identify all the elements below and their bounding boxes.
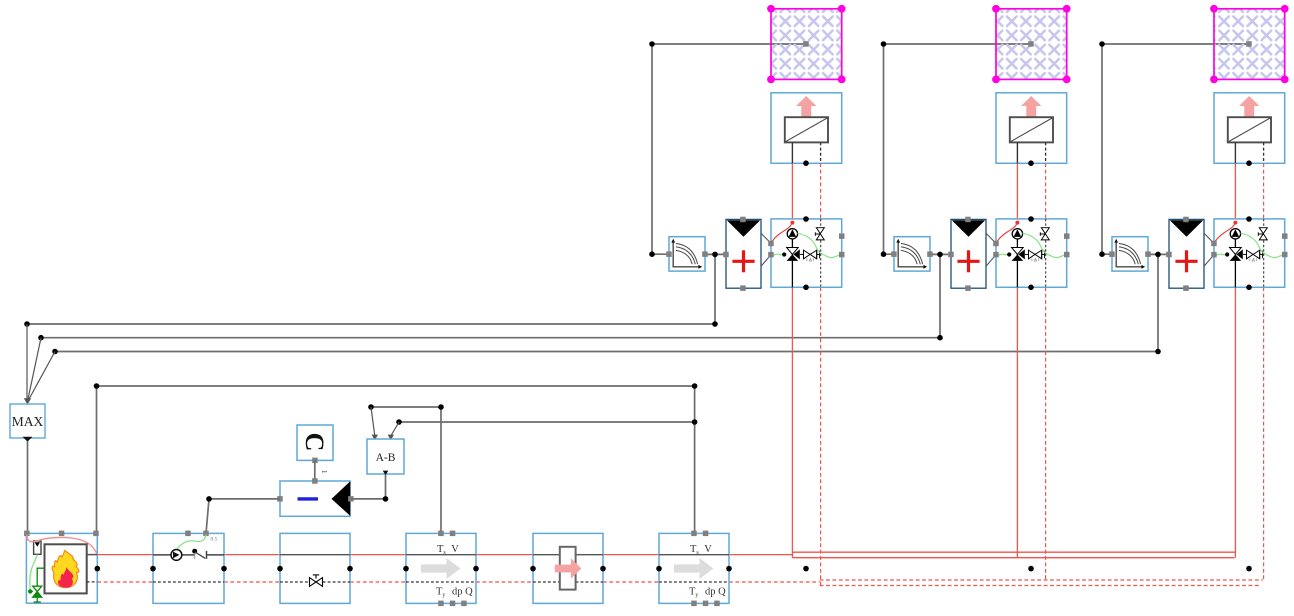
node on radiator bottom [1246, 160, 1252, 166]
unit ports [993, 241, 999, 247]
three-way valve [1230, 248, 1242, 255]
heating curve block [666, 237, 708, 271]
svg-text:MAX: MAX [12, 414, 44, 429]
green wave from left port [996, 254, 1009, 255]
node top border [803, 216, 809, 222]
link adder to valve unit (lower) [1204, 255, 1214, 267]
wire to flow meter 1 [371, 406, 441, 408]
wire MAX to boiler [27, 441, 29, 533]
combustion chamber [45, 544, 87, 593]
tiny valve annotation [1250, 258, 1257, 261]
radiator supply stub [1016, 142, 1018, 163]
supply pipe riser (red) [1234, 163, 1236, 219]
svg-text:0.5: 0.5 [211, 537, 218, 543]
junction on MAX bus [937, 335, 943, 341]
green control wire to pump [177, 534, 206, 548]
green curve pump to right port [1241, 233, 1285, 257]
return pipe (red dashed) boiler to module 1 [97, 581, 153, 583]
supply pipe (red) boiler to riser 1 [97, 554, 153, 556]
diagonals into A-B [371, 407, 375, 436]
junction on MAX bus [1155, 349, 1161, 355]
return pipe down to bus (red dashed) [1263, 287, 1265, 580]
tiny valve annotation [1032, 258, 1039, 261]
pump block [150, 531, 227, 604]
node on radiator bottom [803, 160, 809, 166]
junction before adder [937, 252, 943, 258]
wire: zone temperature signal (vertical drop) [1102, 44, 1112, 254]
link adder to valve unit (upper) [1204, 233, 1214, 243]
green wave from left port [771, 254, 784, 255]
node on bottom pipe row [1028, 566, 1034, 572]
pipe through valve [791, 239, 793, 287]
dashed return inside unit [1045, 219, 1047, 227]
dashed return inside unit [820, 219, 822, 227]
balancing valve (horizontal) [1243, 250, 1263, 259]
radiator supply stub [1234, 142, 1236, 163]
junction before adder [1155, 252, 1161, 258]
node bottom border [1028, 285, 1034, 291]
heat exchanger block [530, 533, 606, 603]
return pipe riser (red dashed) [1045, 163, 1047, 219]
svg-text:Ty dp Q: Ty dp Q [436, 586, 473, 598]
green signal from sensor [30, 554, 37, 590]
green wave from left port [1214, 254, 1227, 255]
three-way valve [787, 248, 799, 255]
bus junctions left [24, 321, 30, 327]
MAX bus from module 2 [41, 337, 940, 339]
wire subtract output to pump [209, 498, 280, 500]
node top border [1246, 216, 1252, 222]
wire: into zone center [884, 43, 1030, 45]
pipe segments [153, 554, 171, 556]
junction at top of drop [881, 41, 887, 47]
red control curve [996, 223, 1017, 244]
wire A-B to subtract input [351, 498, 386, 500]
dashed return inside unit [1263, 219, 1265, 227]
vent valve (vertical) [815, 228, 824, 240]
flame inner [58, 567, 73, 587]
MAX block [10, 404, 45, 442]
radiator supply stub [791, 142, 793, 163]
wire: heating-curve output to adder [930, 253, 951, 255]
junction at bottom of drop [881, 251, 887, 257]
unit ports [1211, 241, 1217, 247]
supply pipe down to bus (red) [1016, 287, 1018, 557]
link adder to valve unit (upper) [761, 233, 771, 243]
boiler box [24, 531, 100, 604]
junction at bottom of drop [649, 251, 655, 257]
wire: zone temperature signal (vertical drop) [652, 44, 669, 254]
boiler-temperature bus [97, 385, 695, 387]
svg-text:1: 1 [320, 470, 328, 474]
flame outer [52, 550, 79, 587]
building zone box [992, 5, 1071, 83]
radiator (heat emission) box [771, 93, 842, 166]
green curve pump to right port [798, 233, 842, 257]
valve-pump unit box [993, 216, 1069, 290]
node top border [1028, 216, 1034, 222]
radiator (heat emission) box [1214, 93, 1285, 166]
wire: heating-curve output to adder [1148, 253, 1169, 255]
wire: zone temperature signal (vertical drop) [884, 44, 895, 254]
link adder to valve unit (lower) [761, 255, 771, 267]
shut-off valve block [277, 533, 353, 603]
supply pipe down to bus (red) [791, 287, 793, 557]
tiny valve annotation [807, 258, 814, 261]
junction at bottom of drop [1099, 251, 1105, 257]
MAX bus from module 1 [27, 323, 715, 325]
pump symbol [171, 550, 182, 561]
MAX bus from module 3 [55, 351, 1158, 353]
building zone box [1210, 5, 1289, 83]
node boiler right [95, 566, 101, 572]
heat arrow up [1021, 96, 1041, 117]
temperature sensor pocket [34, 541, 41, 554]
circulation pump [787, 229, 797, 239]
svg-text:Ty dp Q: Ty dp Q [689, 586, 726, 598]
junction at top of drop [649, 41, 655, 47]
junction at top of drop [1099, 41, 1105, 47]
svg-text:A-B: A-B [376, 452, 396, 464]
circulation pump [1012, 229, 1022, 239]
vent valve (vertical) [1258, 228, 1267, 240]
red control curve in boiler [27, 535, 97, 555]
node on bottom pipe row [1246, 566, 1252, 572]
wire: into zone center [1102, 43, 1247, 45]
dark green connection L [37, 568, 44, 586]
subtract block with feedback triangle [277, 478, 353, 516]
return bus upper (red dashed) [820, 579, 1263, 581]
circulation pump [1230, 229, 1240, 239]
adder block (black triangle + red plus) [723, 217, 761, 291]
radiator return stub (dashed) [1263, 142, 1265, 163]
arrow into MAX [24, 398, 31, 404]
flow meter 2 [656, 531, 732, 607]
return pipe riser (red dashed) [820, 163, 822, 219]
node on radiator bottom [1028, 160, 1034, 166]
node bottom border [803, 285, 809, 291]
node on green line [1225, 252, 1229, 256]
node bottom border [1246, 285, 1252, 291]
valve-pump unit box [768, 216, 844, 290]
green curve pump to right port [1023, 233, 1067, 257]
A-B block [367, 439, 404, 475]
wire: branch down to MAX bus [1157, 254, 1159, 351]
wire A-B to flow meter 2 [399, 421, 695, 423]
heat arrow up [1239, 96, 1259, 117]
return bus lower (red dashed) [820, 585, 1261, 587]
node on green line [782, 252, 786, 256]
radiator body rectangle with diagonal [1228, 117, 1271, 142]
supply pipe riser (red) [1016, 163, 1018, 219]
switch symbol [192, 549, 197, 554]
supply pipe down to bus (red) [1234, 287, 1236, 557]
pipe through valve [1234, 239, 1236, 287]
wires converging into MAX [26, 324, 28, 400]
link adder to valve unit (upper) [986, 233, 996, 243]
red control curve [771, 223, 792, 244]
wire: branch down to MAX bus [714, 254, 716, 324]
building zone box [767, 5, 846, 83]
return pipe down to bus (red dashed) [1045, 287, 1047, 580]
three-way valve [1012, 248, 1024, 255]
unit ports [768, 241, 774, 247]
flow meter 1 [403, 531, 479, 607]
return pipe down to bus (red dashed) [820, 287, 822, 585]
green valve [30, 586, 42, 602]
svg-text:C: C [300, 433, 329, 452]
supply bus lower (red) [793, 557, 1235, 559]
heating curve block [1109, 237, 1151, 271]
return dashed through box [153, 581, 224, 583]
butterfly valve on return [310, 575, 323, 587]
junction on MAX bus [712, 321, 718, 327]
return pipe riser (red dashed) [1263, 163, 1265, 219]
supply bus upper (red) [793, 551, 1236, 553]
node on bottom pipe row [803, 566, 809, 572]
heating curve block [891, 237, 933, 271]
supply pipe riser (red) [791, 163, 793, 219]
balancing valve (horizontal) [800, 250, 820, 259]
schedule block C [297, 425, 333, 463]
wire C to subtract block [314, 460, 316, 481]
node on green line [1007, 252, 1011, 256]
junction before adder [712, 252, 718, 258]
red control curve [1214, 223, 1235, 244]
wire: heating-curve output to adder [705, 253, 726, 255]
heat arrow up [796, 96, 816, 117]
valve-pump unit box [1211, 216, 1287, 290]
vent valve (vertical) [1040, 228, 1049, 240]
adder block (black triangle + red plus) [1166, 217, 1204, 291]
boiler supply stub [87, 554, 98, 556]
radiator return stub (dashed) [1045, 142, 1047, 163]
wire: into zone center [652, 43, 804, 45]
balancing valve (horizontal) [1025, 250, 1045, 259]
link adder to valve unit (lower) [986, 255, 996, 267]
radiator body rectangle with diagonal [1010, 117, 1053, 142]
boiler return stub dashed [87, 581, 98, 583]
radiator (heat emission) box [996, 93, 1067, 166]
radiator body rectangle with diagonal [785, 117, 828, 142]
pipe through valve [1016, 239, 1018, 287]
wire: branch down to MAX bus [939, 254, 941, 337]
radiator return stub (dashed) [820, 142, 822, 163]
adder block (black triangle + red plus) [948, 217, 986, 291]
